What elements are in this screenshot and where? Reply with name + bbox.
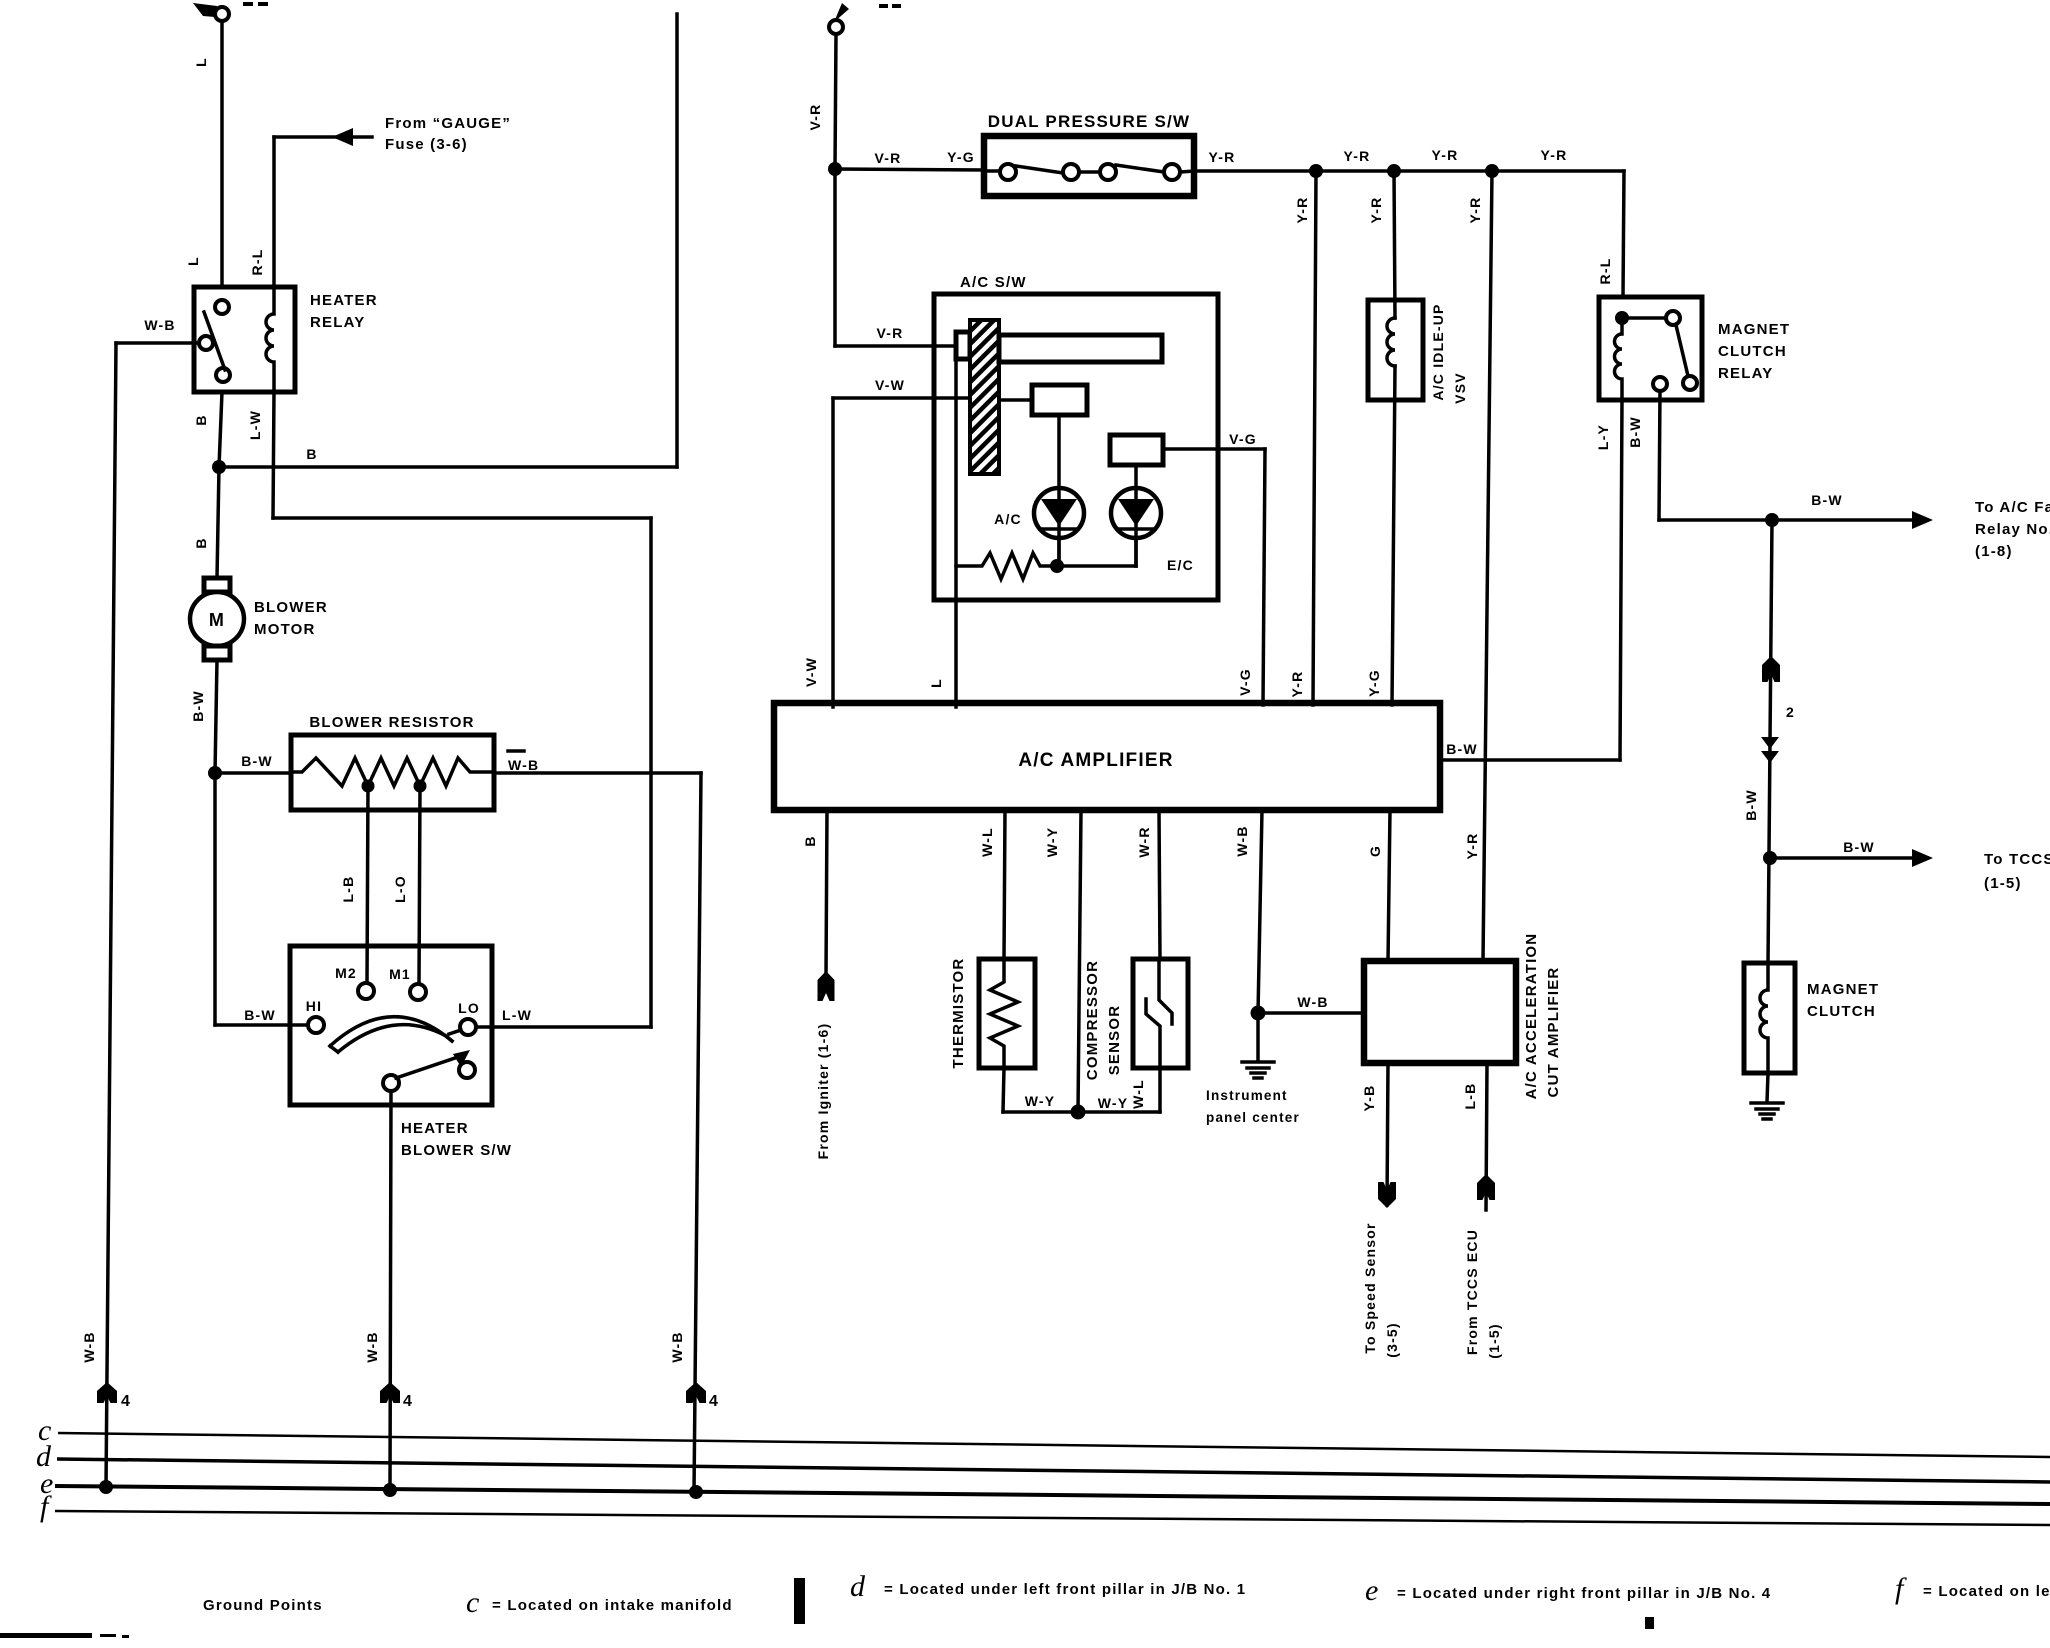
svg-text:= Located on le: = Located on le (1923, 1583, 2050, 1600)
svg-text:BLOWER S/W: BLOWER S/W (401, 1142, 512, 1159)
svg-text:Fuse (3-6): Fuse (3-6) (385, 136, 468, 153)
svg-text:THERMISTOR: THERMISTOR (950, 958, 967, 1069)
svg-text:A/C: A/C (994, 511, 1022, 527)
svg-text:A/C AMPLIFIER: A/C AMPLIFIER (1018, 750, 1173, 771)
svg-text:E/C: E/C (1167, 557, 1194, 573)
svg-text:2: 2 (1786, 704, 1795, 720)
bus e (40, 1467, 2050, 1504)
node W-B ground junction (1251, 1006, 1266, 1021)
A/C contact box (1032, 385, 1087, 415)
wire bar to A/C contact (999, 398, 1032, 402)
wire B-W to HI (213, 773, 217, 1025)
svg-text:Y-R: Y-R (1294, 197, 1310, 224)
wire B junction to motor (217, 467, 219, 578)
svg-text:B-W: B-W (190, 690, 206, 722)
svg-text:Relay No.: Relay No. (1975, 521, 2050, 538)
svg-text:MAGNET: MAGNET (1807, 981, 1879, 998)
svg-text:B-W: B-W (1627, 416, 1643, 448)
svg-text:MAGNET: MAGNET (1718, 321, 1790, 338)
blower motor BLOWER MOTOR (190, 578, 244, 660)
wire Y-B to speed sensor (1378, 1063, 1396, 1208)
note c (466, 1586, 733, 1619)
wire V-W into A/C S/W (833, 398, 970, 707)
svg-text:W-Y: W-Y (1098, 1095, 1129, 1111)
svg-text:DUAL PRESSURE S/W: DUAL PRESSURE S/W (988, 112, 1190, 131)
page artifacts (794, 1578, 805, 1624)
svg-text:c: c (466, 1586, 481, 1619)
svg-text:CLUTCH: CLUTCH (1807, 1003, 1876, 1020)
svg-text:B-W: B-W (241, 753, 273, 769)
wire to instrument panel ground (1256, 1013, 1260, 1060)
wire motor to B-W junction (215, 660, 217, 773)
hatched actuator bar (970, 320, 999, 474)
ground (magnet clutch) (1751, 1103, 1783, 1119)
note f (1895, 1572, 2050, 1605)
svg-text:W-B: W-B (1297, 994, 1328, 1010)
node Y-R junction 2 (1387, 164, 1401, 178)
magnet clutch relay MAGNET CLUTCH RELAY (1599, 297, 1702, 400)
svg-text:V-R: V-R (875, 150, 902, 166)
svg-text:V-G: V-G (1237, 668, 1253, 696)
node B junction (212, 460, 226, 474)
wire V-R down (835, 34, 836, 169)
svg-text:L-B: L-B (340, 876, 356, 903)
node B-W junction (208, 766, 222, 780)
svg-text:From Igniter (1-6): From Igniter (1-6) (815, 1023, 831, 1160)
svg-text:B: B (193, 414, 209, 425)
svg-text:4: 4 (403, 1393, 413, 1410)
svg-text:From TCCS ECU: From TCCS ECU (1464, 1229, 1480, 1355)
svg-text:(1-5): (1-5) (1984, 875, 2022, 892)
svg-text:Y-R: Y-R (1467, 197, 1483, 224)
svg-text:To TCCS EC: To TCCS EC (1984, 851, 2050, 868)
wire G amplifier to cut amplifier (1388, 810, 1390, 961)
svg-text:Y-R: Y-R (1209, 149, 1236, 165)
wire W-R amplifier to compressor sensor (1159, 810, 1160, 959)
wire Y-G riser through VSV to amplifier (1394, 171, 1395, 318)
svg-text:4: 4 (709, 1393, 719, 1410)
A/C switch A/C S/W (934, 294, 1218, 600)
E/C contact box (1110, 435, 1163, 465)
svg-text:RELAY: RELAY (1718, 365, 1773, 382)
A/C idle-up VSV (1368, 300, 1423, 400)
wire L-B from TCCS ECU (1477, 1063, 1495, 1210)
svg-text:CLUTCH: CLUTCH (1718, 343, 1787, 360)
ground point arrows 4 (97, 1382, 131, 1410)
wire W-B from heater relay to ground bus (106, 343, 199, 1487)
node V-R junction (828, 162, 842, 176)
compressor sensor COMPRESSOR SENSOR (1133, 959, 1188, 1068)
wire LO to L-W riser (476, 1025, 651, 1029)
wire W-Y thermistor to junction (1003, 1068, 1078, 1112)
magnet clutch MAGNET CLUTCH (1744, 963, 1795, 1073)
slider bar (999, 335, 1162, 362)
svg-text:W-B: W-B (669, 1331, 685, 1362)
svg-text:L-W: L-W (247, 410, 263, 440)
svg-text:BLOWER: BLOWER (254, 599, 328, 616)
wire L-O tap to switch M1 (419, 786, 420, 984)
svg-text:Y-G: Y-G (947, 149, 975, 165)
blower resistor BLOWER RESISTOR (291, 735, 494, 810)
svg-text:B-W: B-W (1743, 789, 1759, 821)
svg-text:= Located on intake manifold: = Located on intake manifold (492, 1597, 733, 1614)
svg-text:B: B (802, 835, 818, 846)
A/C acceleration cut amplifier (1364, 961, 1516, 1063)
svg-text:MOTOR: MOTOR (254, 621, 316, 638)
svg-text:V-W: V-W (875, 377, 905, 393)
wire to ground (1767, 1073, 1768, 1102)
svg-text:M: M (209, 610, 225, 630)
svg-text:W-L: W-L (979, 827, 995, 857)
label W-B (overlined) right of resistor (508, 751, 539, 773)
svg-text:To A/C Fan: To A/C Fan (1975, 499, 2050, 516)
wire W-B junction to cut amplifier (1258, 1011, 1364, 1015)
node W-Y junction (1071, 1105, 1086, 1120)
svg-text:W-B: W-B (144, 317, 175, 333)
svg-text:V-R: V-R (877, 325, 904, 341)
wire B-W to TCCS ECU (1770, 849, 1933, 867)
svg-text:W-R: W-R (1136, 826, 1152, 857)
svg-text:e: e (1365, 1574, 1380, 1607)
svg-text:HEATER: HEATER (310, 292, 378, 309)
svg-text:B-W: B-W (1446, 741, 1478, 757)
svg-text:(1-8): (1-8) (1975, 543, 2013, 560)
svg-text:A/C ACCELERATION: A/C ACCELERATION (1523, 933, 1540, 1100)
wire Y-R riser 1 to amplifier (1313, 171, 1316, 705)
svg-text:G: G (1367, 845, 1383, 857)
wire V-R to dual pressure switch (835, 169, 984, 170)
wire down to A/C lamp (1057, 415, 1061, 566)
svg-text:L-B: L-B (1462, 1083, 1478, 1110)
svg-text:LO: LO (458, 1000, 480, 1016)
svg-text:To Speed Sensor: To Speed Sensor (1362, 1222, 1378, 1353)
node B-W junction to magnet clutch (1765, 513, 1779, 527)
svg-text:4: 4 (121, 1393, 131, 1410)
svg-text:B: B (193, 537, 209, 548)
svg-text:HEATER: HEATER (401, 1120, 469, 1137)
dual pressure switch DUAL PRESSURE S/W (984, 136, 1194, 196)
svg-text:(1-5): (1-5) (1486, 1323, 1502, 1359)
wire W-Y amplifier to junction (1078, 810, 1081, 1112)
svg-text:Y-R: Y-R (1344, 148, 1371, 164)
svg-text:M2: M2 (335, 965, 357, 981)
wire V-R into A/C S/W (835, 169, 956, 346)
svg-text:W-B: W-B (364, 1331, 380, 1362)
svg-text:SENSOR: SENSOR (1106, 1005, 1123, 1076)
svg-text:A/C S/W: A/C S/W (960, 274, 1027, 291)
svg-text:d: d (850, 1570, 866, 1603)
wire L-W jog from relay to blower switch column (273, 392, 651, 1027)
wire L from contact down to amplifier (954, 359, 958, 707)
svg-text:Y-R: Y-R (1541, 147, 1568, 163)
wire B-W down to magnet clutch (1768, 520, 1772, 963)
svg-text:B-W: B-W (244, 1007, 276, 1023)
svg-text:VSV: VSV (1452, 372, 1468, 404)
wire R-L into magnet clutch relay (1623, 171, 1624, 297)
wire W-B switch to ground bus (390, 1091, 391, 1490)
svg-text:A/C IDLE-UP: A/C IDLE-UP (1430, 303, 1446, 400)
bus c (38, 1414, 2050, 1457)
svg-text:B-W: B-W (1811, 492, 1843, 508)
svg-text:BLOWER RESISTOR: BLOWER RESISTOR (309, 714, 474, 731)
svg-text:W-L: W-L (1130, 1079, 1146, 1109)
illumination resistor (956, 553, 1136, 579)
svg-text:L-W: L-W (502, 1007, 532, 1023)
svg-text:W-B: W-B (81, 1331, 97, 1362)
wire V-G from E/C contact to amplifier (1163, 449, 1265, 705)
svg-text:V-R: V-R (807, 104, 823, 131)
svg-text:CUT AMPLIFIER: CUT AMPLIFIER (1545, 967, 1562, 1098)
svg-text:From “GAUGE”: From “GAUGE” (385, 115, 511, 132)
svg-text:W-B: W-B (1234, 825, 1250, 856)
wire L-Y relay coil to B-W amplifier line (1620, 400, 1622, 760)
wire from GAUGE fuse with arrow (274, 128, 372, 287)
svg-text:Y-G: Y-G (1366, 669, 1382, 697)
svg-text:L-Y: L-Y (1595, 424, 1611, 450)
svg-text:Y-B: Y-B (1361, 1085, 1377, 1112)
ground (instrument panel center) (1242, 1062, 1274, 1078)
svg-text:W-Y: W-Y (1044, 827, 1060, 858)
svg-text:Ground Points: Ground Points (203, 1597, 323, 1614)
wire B-W amplifier to L-Y riser (1440, 758, 1620, 762)
svg-text:R-L: R-L (249, 249, 265, 276)
svg-text:HI: HI (306, 998, 322, 1014)
wire W-B amplifier to cut amplifier (1258, 810, 1262, 1013)
svg-text:RELAY: RELAY (310, 314, 365, 331)
svg-text:W-B: W-B (508, 757, 539, 773)
node bus e junctions (99, 1480, 113, 1494)
svg-text:(3-5): (3-5) (1384, 1322, 1400, 1358)
svg-text:Y-R: Y-R (1289, 671, 1305, 698)
wire B-W relay contact down and right to fan relay (1659, 391, 1933, 529)
svg-text:B: B (306, 446, 317, 462)
wire junction to blower resistor (215, 771, 291, 775)
wire L from terminal to heater relay (220, 21, 224, 287)
E/C indicator lamp (1111, 488, 1161, 566)
node Y-R junction 1 (1309, 164, 1323, 178)
svg-text:L-O: L-O (392, 875, 408, 903)
connector arrows 2 (1761, 656, 1795, 763)
node lamp junction (1050, 559, 1064, 573)
wire L-B tap to switch M2 (367, 786, 368, 983)
thermistor THERMISTOR (979, 959, 1035, 1068)
svg-text:panel center: panel center (1206, 1110, 1300, 1125)
svg-text:Instrument: Instrument (1206, 1088, 1288, 1103)
wire W-L amplifier to thermistor (1004, 810, 1005, 959)
svg-text:= Located under right front pi: = Located under right front pillar in J/… (1397, 1585, 1771, 1602)
wire W-B resistor to ground bus (494, 773, 701, 1492)
svg-text:M1: M1 (389, 966, 411, 982)
wire B horizontal to right riser (219, 14, 677, 467)
terminal top (ignition feed) (829, 3, 901, 34)
node Y-R junction 3 (1485, 164, 1499, 178)
switch slider contact (V-R) (956, 332, 970, 359)
wire down to E/C lamp (1134, 465, 1138, 566)
heater relay HEATER RELAY (194, 287, 295, 392)
bus d (36, 1440, 2050, 1482)
note e (1365, 1574, 1771, 1607)
svg-text:L: L (928, 678, 944, 688)
wire Y-R riser 3 to cut amplifier (1483, 171, 1492, 961)
terminal (battery feed) top-left (193, 2, 268, 21)
wire Y-R from switch to R-L riser (1194, 169, 1624, 173)
A/C indicator lamp (1034, 488, 1084, 566)
svg-text:L: L (185, 256, 201, 266)
svg-text:Y-R: Y-R (1368, 197, 1384, 224)
node B-W junction to TCCS (1763, 851, 1777, 865)
A/C AMPLIFIER (774, 703, 1440, 810)
note d (850, 1570, 1246, 1603)
wire W-L sensor to junction (1078, 1068, 1160, 1112)
svg-text:Y-R: Y-R (1432, 147, 1459, 163)
svg-text:Y-R: Y-R (1464, 833, 1480, 860)
svg-text:B-W: B-W (1843, 839, 1875, 855)
svg-text:W-Y: W-Y (1025, 1093, 1056, 1109)
svg-text:= Located under left front pil: = Located under left front pillar in J/B… (884, 1581, 1246, 1598)
svg-text:V-G: V-G (1229, 431, 1257, 447)
svg-text:COMPRESSOR: COMPRESSOR (1084, 960, 1101, 1080)
bus f (40, 1490, 2050, 1525)
svg-text:V-W: V-W (803, 657, 819, 687)
wire B relay to junction (219, 392, 222, 467)
svg-text:R-L: R-L (1597, 258, 1613, 285)
svg-text:L: L (193, 57, 209, 67)
heater blower switch HEATER BLOWER S/W (290, 946, 492, 1105)
